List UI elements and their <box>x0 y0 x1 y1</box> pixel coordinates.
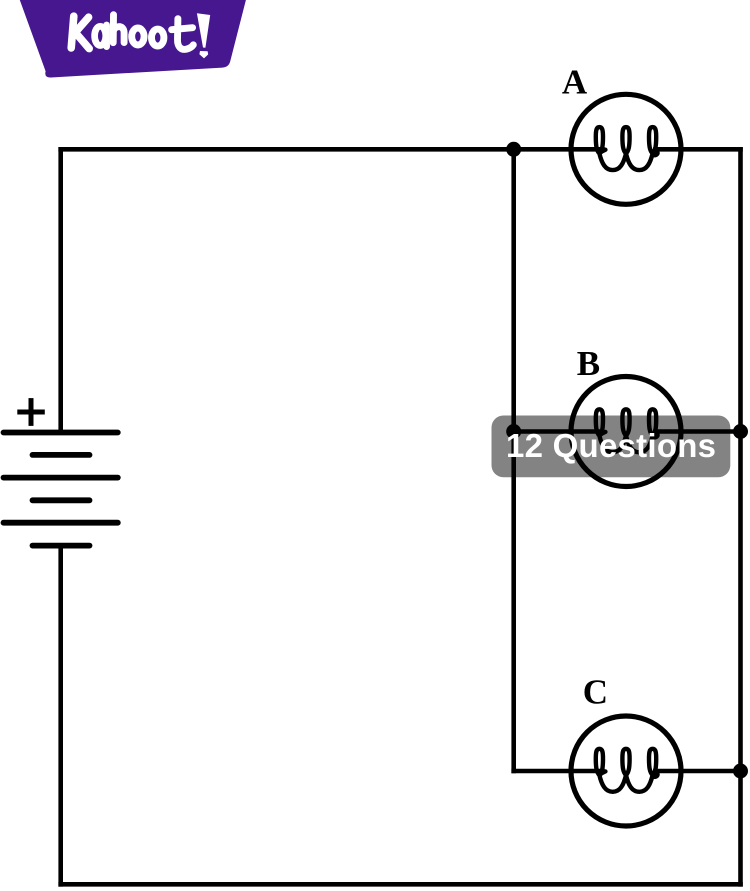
Kahoot logo plaque <box>20 0 246 78</box>
battery polarity label + <box>17 398 45 426</box>
! <box>197 13 210 58</box>
battery long plate <box>4 520 118 526</box>
svg-text:B: B <box>577 344 600 383</box>
12 Questions overlay box (under strokes) <box>492 416 731 478</box>
wire: top rail from battery positive to lamp A (left segment) <box>61 147 603 152</box>
svg-text:A: A <box>562 63 588 102</box>
junction: lamp B feed to right rail <box>733 424 748 439</box>
svg-text:12 Questions: 12 Questions <box>506 427 716 464</box>
wire: lamp B right feed to right rail <box>656 429 741 434</box>
lamp C circle <box>571 716 681 826</box>
lamp C filament coil <box>596 749 658 792</box>
junction: top rail to middle branch rail <box>506 142 521 157</box>
K <box>71 16 89 48</box>
a <box>95 26 106 45</box>
lamp A coil <box>596 127 658 170</box>
junction: middle branch rail to lamp B feed <box>506 424 521 439</box>
wire: top rail from lamp A to right rail <box>656 147 741 152</box>
wire: left rail from top rail down to battery positive plate <box>58 149 63 432</box>
t <box>172 19 194 50</box>
lamp B filament coil <box>596 409 658 452</box>
lamp B circle <box>571 377 681 487</box>
wire: middle branch rail from top junction down to lamp C level <box>511 149 516 771</box>
wire: lamp C left feed <box>514 769 603 774</box>
battery long plate (positive terminal) <box>4 430 118 436</box>
junction: lamp C feed to right rail <box>733 764 748 779</box>
wire: bottom rail <box>61 882 741 887</box>
battery short plate (negative terminal) <box>33 543 90 549</box>
battery long plate <box>4 475 118 481</box>
battery short plate <box>33 452 90 458</box>
battery short plate <box>33 497 90 503</box>
wire: lamp C right feed to right rail <box>656 769 741 774</box>
o <box>132 28 144 45</box>
wire: right rail <box>738 149 743 884</box>
wire: lamp B left feed <box>514 429 602 434</box>
svg-text:C: C <box>583 673 608 712</box>
o <box>152 29 164 46</box>
Kahoot logo text (hand-drawn letters) <box>71 15 193 50</box>
wire: left rail from battery negative plate down to bottom rail <box>58 546 63 885</box>
battery BT1 (three-cell) <box>4 433 118 546</box>
lamp A circle <box>571 94 681 204</box>
h <box>113 15 124 43</box>
